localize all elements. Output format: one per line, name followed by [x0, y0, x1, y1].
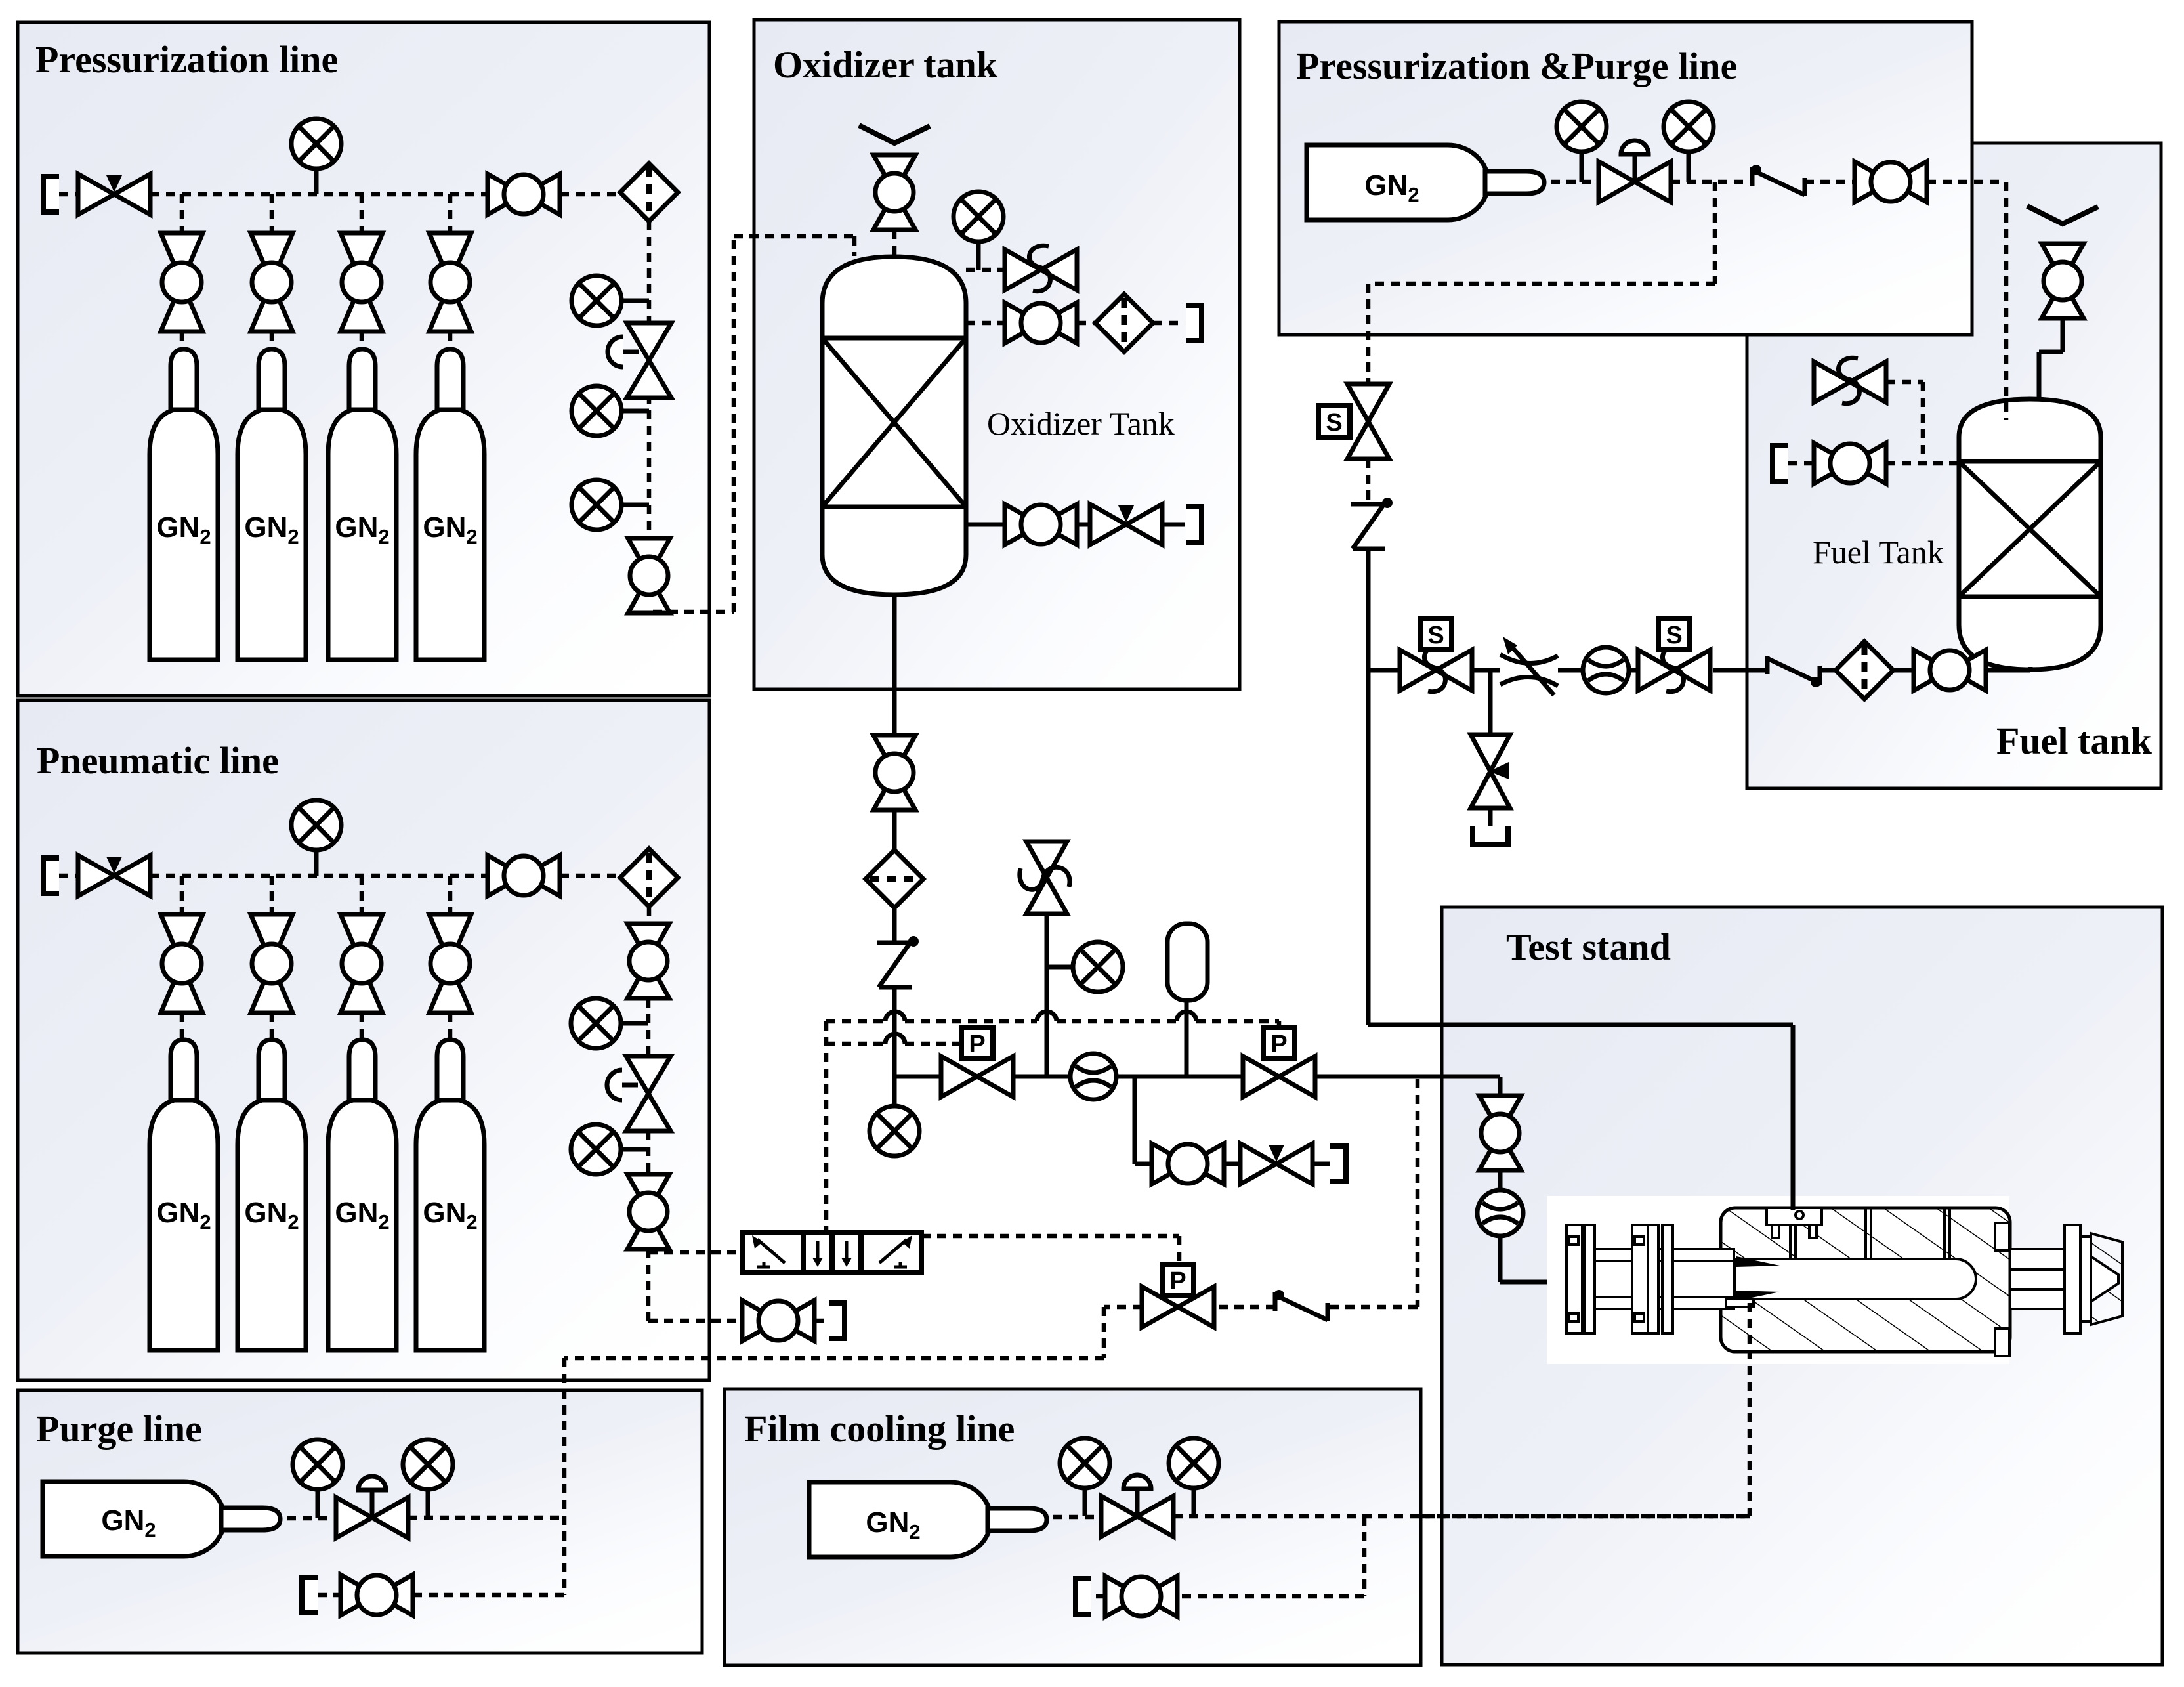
svg-text:Oxidizer tank: Oxidizer tank [773, 43, 998, 86]
svg-text:Pressurization line: Pressurization line [35, 38, 338, 81]
svg-text:Fuel tank: Fuel tank [1996, 719, 2152, 762]
svg-text:Purge line: Purge line [36, 1407, 202, 1450]
svg-text:Oxidizer Tank: Oxidizer Tank [987, 405, 1175, 442]
svg-text:Pressurization &Purge line: Pressurization &Purge line [1296, 45, 1737, 87]
svg-text:Pneumatic line: Pneumatic line [37, 739, 279, 782]
svg-text:Film cooling line: Film cooling line [744, 1407, 1015, 1450]
svg-text:Fuel Tank: Fuel Tank [1813, 534, 1944, 570]
svg-text:Test stand: Test stand [1506, 926, 1671, 968]
